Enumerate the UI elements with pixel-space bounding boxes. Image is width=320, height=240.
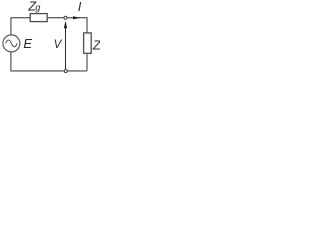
wire [47, 18, 87, 33]
node bottom terminal [64, 70, 67, 73]
svg-text:E: E [23, 36, 32, 51]
current arrow I [73, 16, 80, 19]
svg-text:V: V [54, 38, 63, 51]
node top terminal [64, 16, 67, 19]
svg-text:I: I [78, 0, 82, 14]
impedance Zg [30, 14, 47, 22]
wire [11, 52, 87, 71]
voltage arrow V [65, 28, 67, 70]
wire [86, 53, 88, 71]
wire [11, 18, 30, 36]
source E [3, 35, 20, 52]
source sine wave [6, 40, 18, 47]
svg-text:g: g [35, 2, 41, 12]
svg-text:Z: Z [92, 38, 100, 53]
load Z [84, 33, 92, 53]
